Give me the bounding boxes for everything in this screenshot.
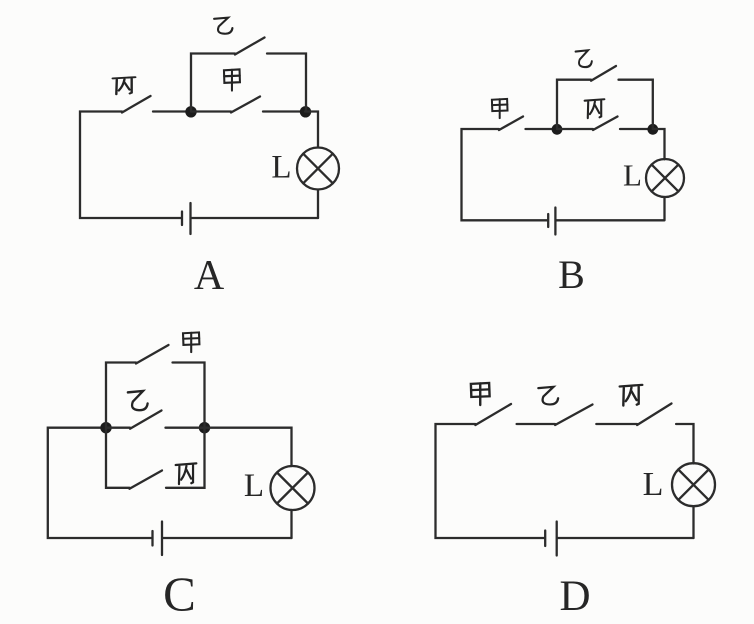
wire: A switch Jia contact to node 2 (263, 110, 305, 112)
wire: A node1 to switch Jia pivot (191, 110, 231, 112)
wire: C node 1 to switch Yi pivot (106, 427, 130, 429)
label 乙 (A) (214, 18, 232, 34)
label 甲 (C) (183, 332, 199, 352)
lamp L (C) cross (277, 473, 308, 504)
wire: A from switch Bing contact to node 1 (153, 110, 188, 112)
wire: B lamp bottom to bottom wire (663, 197, 665, 220)
wire: D switch Jia contact to switch Yi pivot (517, 423, 556, 425)
battery (A) long plate (189, 203, 191, 234)
node 2 (B) (647, 124, 658, 135)
svg-text:L: L (271, 150, 291, 186)
label 丙 (C) (176, 463, 197, 484)
wire: D lamp bottom to bottom wire (692, 506, 694, 538)
label 乙 (C) (128, 391, 148, 410)
label 丙 (A) (113, 77, 136, 94)
battery (B) short plate (547, 214, 549, 227)
wire: C node 2 to lamp top (205, 428, 292, 466)
label 甲 (A) (224, 69, 240, 90)
wire: B left side and bottom-left to battery (462, 129, 548, 220)
node 1 (A) (185, 106, 196, 117)
wire: A top branch right segment and right vertical to node 2 (267, 54, 306, 112)
switch Bing (丙) blade, circuit A (122, 96, 151, 113)
wire: A lamp bottom to bottom wire (317, 190, 319, 219)
wire: B bottom-right from battery to lamp branch (556, 219, 664, 221)
battery (D) short plate (544, 531, 546, 547)
label 乙 (D) (538, 387, 558, 405)
switch Bing (丙) blade, circuit D (637, 404, 671, 426)
switch Jia (甲) blade, circuit B (499, 117, 523, 131)
wire: D switch Yi contact to switch Bing pivot (596, 423, 637, 425)
svg-text:B: B (558, 252, 585, 297)
wire: B switch Bing contact to node 2 (620, 128, 650, 130)
lamp L (B) circle (646, 159, 684, 197)
svg-text:L: L (643, 466, 664, 503)
battery (C) long plate (161, 522, 163, 556)
switch Jia (甲) blade, circuit D (475, 404, 511, 425)
svg-text:A: A (194, 253, 225, 299)
wire: A bottom-right from battery to lamp branch (192, 217, 319, 219)
wire: C bottom branch right segment and right vertical to node 2 (166, 428, 205, 488)
wire: B node 1 to switch Bing pivot (557, 128, 593, 130)
svg-text:D: D (559, 573, 590, 620)
lamp L (A) circle (297, 148, 339, 190)
node 2 (C) (199, 422, 210, 433)
lamp L (B) cross (652, 165, 679, 192)
wire: B top branch right segment and right vertical to node 2 (619, 80, 653, 129)
lamp L (A) cross (303, 154, 332, 183)
svg-text:C: C (163, 567, 196, 622)
wire: C lamp bottom to bottom wire (290, 510, 292, 538)
switch Jia (甲) blade, circuit A (231, 97, 260, 113)
wire: A left side and bottom-left to battery (80, 112, 181, 219)
wire: C bottom-right from battery to lamp branch (163, 537, 292, 539)
battery (D) long plate (556, 522, 558, 556)
wire: B switch Jia contact to node 1 (526, 128, 555, 130)
switch Yi (乙) blade, circuit C (130, 411, 162, 429)
battery (B) long plate (554, 208, 556, 235)
wire: D switch Bing contact to right corner and down to lamp (676, 424, 693, 464)
wire: A node 2 to lamp top (305, 112, 318, 148)
wire: C top branch left vertical and top-left segment (106, 363, 136, 428)
switch Yi (乙) blade, circuit A (235, 38, 265, 55)
wire: C left side and bottom-left to battery (48, 428, 152, 538)
wire: C switch Yi contact to node 2 (166, 427, 205, 429)
svg-text:L: L (244, 468, 264, 504)
switch Yi (乙) blade, circuit B (591, 66, 616, 81)
label 甲 (B) (492, 99, 508, 118)
node 2 (A) (300, 106, 311, 117)
node 1 (B) (552, 124, 563, 135)
label 乙 (B) (576, 50, 592, 67)
wire: C top branch right segment and right vertical to node 2 (173, 363, 205, 428)
lamp L (D) cross (678, 470, 708, 500)
wire: B top branch left vertical and top-left segment (557, 80, 591, 129)
label 丙 (D) (620, 385, 643, 406)
wire: D left side and bottom-left to battery (436, 424, 545, 538)
wire: D bottom-right from battery to lamp branch (558, 537, 694, 539)
svg-text:L: L (623, 158, 642, 193)
switch Yi (乙) blade, circuit D (555, 405, 592, 426)
wire: B node 2 to lamp top (653, 129, 665, 159)
wire: C bottom branch left vertical and left segment (106, 428, 130, 488)
label 丙 (B) (585, 99, 605, 118)
node 1 (C) (100, 422, 111, 433)
wire: A top branch left vertical and top-left segment (191, 54, 235, 112)
battery (A) short plate (181, 212, 183, 226)
switch Bing (丙) blade, circuit B (593, 117, 618, 131)
lamp L (D) circle (672, 463, 715, 506)
battery (C) short plate (151, 531, 153, 546)
label 甲 (D) (471, 383, 490, 405)
switch Jia (甲) blade, circuit C (136, 345, 169, 364)
lamp L (C) circle (271, 466, 315, 510)
switch Bing (丙) blade, circuit C (130, 471, 163, 489)
